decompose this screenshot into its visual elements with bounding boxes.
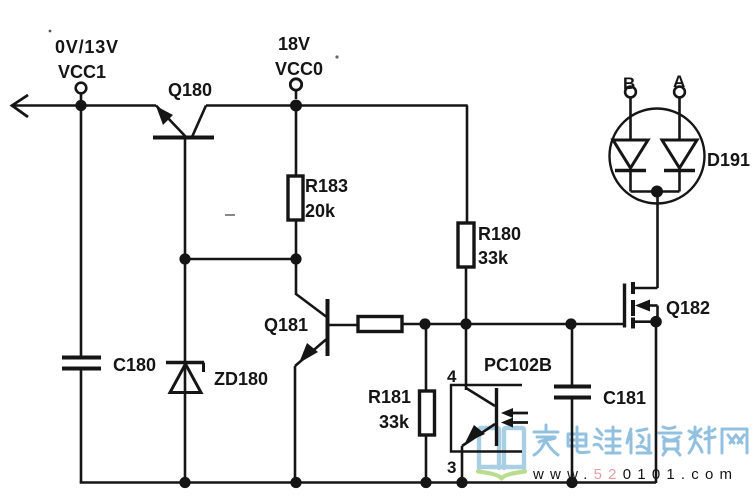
node junction D191 common [651, 186, 663, 198]
mosfet Q182 [625, 282, 658, 329]
diode D191 left [613, 140, 648, 192]
node junction C181-ground [566, 477, 577, 488]
wire: base link horizontal [185, 258, 296, 261]
svg-text:0V/13V: 0V/13V [55, 37, 119, 57]
terminal VCC1 [76, 83, 87, 101]
watermark book logo [479, 428, 524, 468]
node junction R181 top [419, 318, 430, 329]
node junction R181-ground [420, 477, 431, 488]
node junction pin3-ground [456, 477, 467, 488]
wire: R183 to Q181 collector [295, 259, 298, 295]
node junction zener-ground [179, 477, 190, 488]
terminal B [625, 87, 636, 140]
svg-text:D191: D191 [707, 150, 750, 170]
wire: source to ground rail [655, 322, 658, 483]
node junction VCC1 [75, 100, 86, 111]
svg-text:www.520101.com: www.520101.com [532, 466, 738, 483]
capacitor C181 [554, 324, 591, 483]
zener ZD180 [166, 259, 204, 483]
svg-text:33k: 33k [478, 248, 509, 268]
svg-text:Q180: Q180 [168, 80, 212, 100]
resistor base Q181 (horizontal box) [358, 317, 402, 332]
wire: top rail left segment with arrow [12, 95, 156, 117]
svg-text:C181: C181 [603, 388, 646, 408]
resistor R181 [420, 324, 435, 483]
resistor R183 [288, 106, 303, 260]
node junction Q182 source [650, 316, 662, 328]
node junction R180 bottom [460, 318, 471, 329]
optocoupler PC102B box [451, 324, 522, 452]
light arrows into phototransistor [501, 408, 528, 428]
svg-text:3: 3 [447, 458, 456, 477]
WATERMARK [478, 425, 747, 483]
svg-text:VCC1: VCC1 [58, 62, 106, 82]
node junction VCC0 [290, 100, 302, 112]
watermark book base swoosh [478, 472, 525, 479]
svg-text:20k: 20k [305, 201, 336, 221]
svg-text:33k: 33k [379, 412, 410, 432]
wire: left vertical lower [80, 370, 83, 483]
transistor Q180 [153, 106, 214, 260]
node junction Q181 emitter-ground [290, 477, 301, 488]
wire: bottom rail [80, 481, 656, 484]
svg-text:R180: R180 [478, 224, 521, 244]
node junction C181 top [565, 318, 576, 329]
svg-text:18V: 18V [278, 34, 310, 54]
svg-text:PC102B: PC102B [484, 355, 552, 375]
svg-text:ZD180: ZD180 [214, 369, 268, 389]
wire: drain up to D191 [656, 192, 659, 288]
wire: top rail right segment [206, 104, 468, 107]
terminal A [674, 87, 685, 140]
node junction base Q180 [179, 253, 190, 264]
svg-text:R183: R183 [305, 176, 348, 196]
dual diode D191 circle [610, 109, 705, 204]
wire: node line to gate [402, 323, 625, 326]
terminal VCC0 [290, 79, 301, 99]
svg-text:C180: C180 [113, 355, 156, 375]
svg-text:R181: R181 [368, 387, 411, 407]
wire: diode common cathode [631, 190, 680, 193]
scan speck [49, 30, 52, 33]
svg-text:VCC0: VCC0 [275, 59, 323, 79]
resistor R180 [458, 106, 474, 325]
diode D191 right [662, 140, 697, 192]
capacitor C180 [62, 358, 101, 369]
svg-text:Q182: Q182 [666, 298, 710, 318]
watermark hanzi strokes [534, 425, 747, 455]
transistor Q181 [295, 294, 358, 483]
svg-text:4: 4 [447, 367, 457, 386]
scan speck [225, 214, 235, 216]
wire: left vertical upper [80, 106, 83, 357]
phototransistor inside PC102B [462, 388, 497, 483]
svg-text:Q181: Q181 [264, 315, 308, 335]
scan speck [335, 55, 338, 58]
node junction under R183 [290, 253, 301, 264]
